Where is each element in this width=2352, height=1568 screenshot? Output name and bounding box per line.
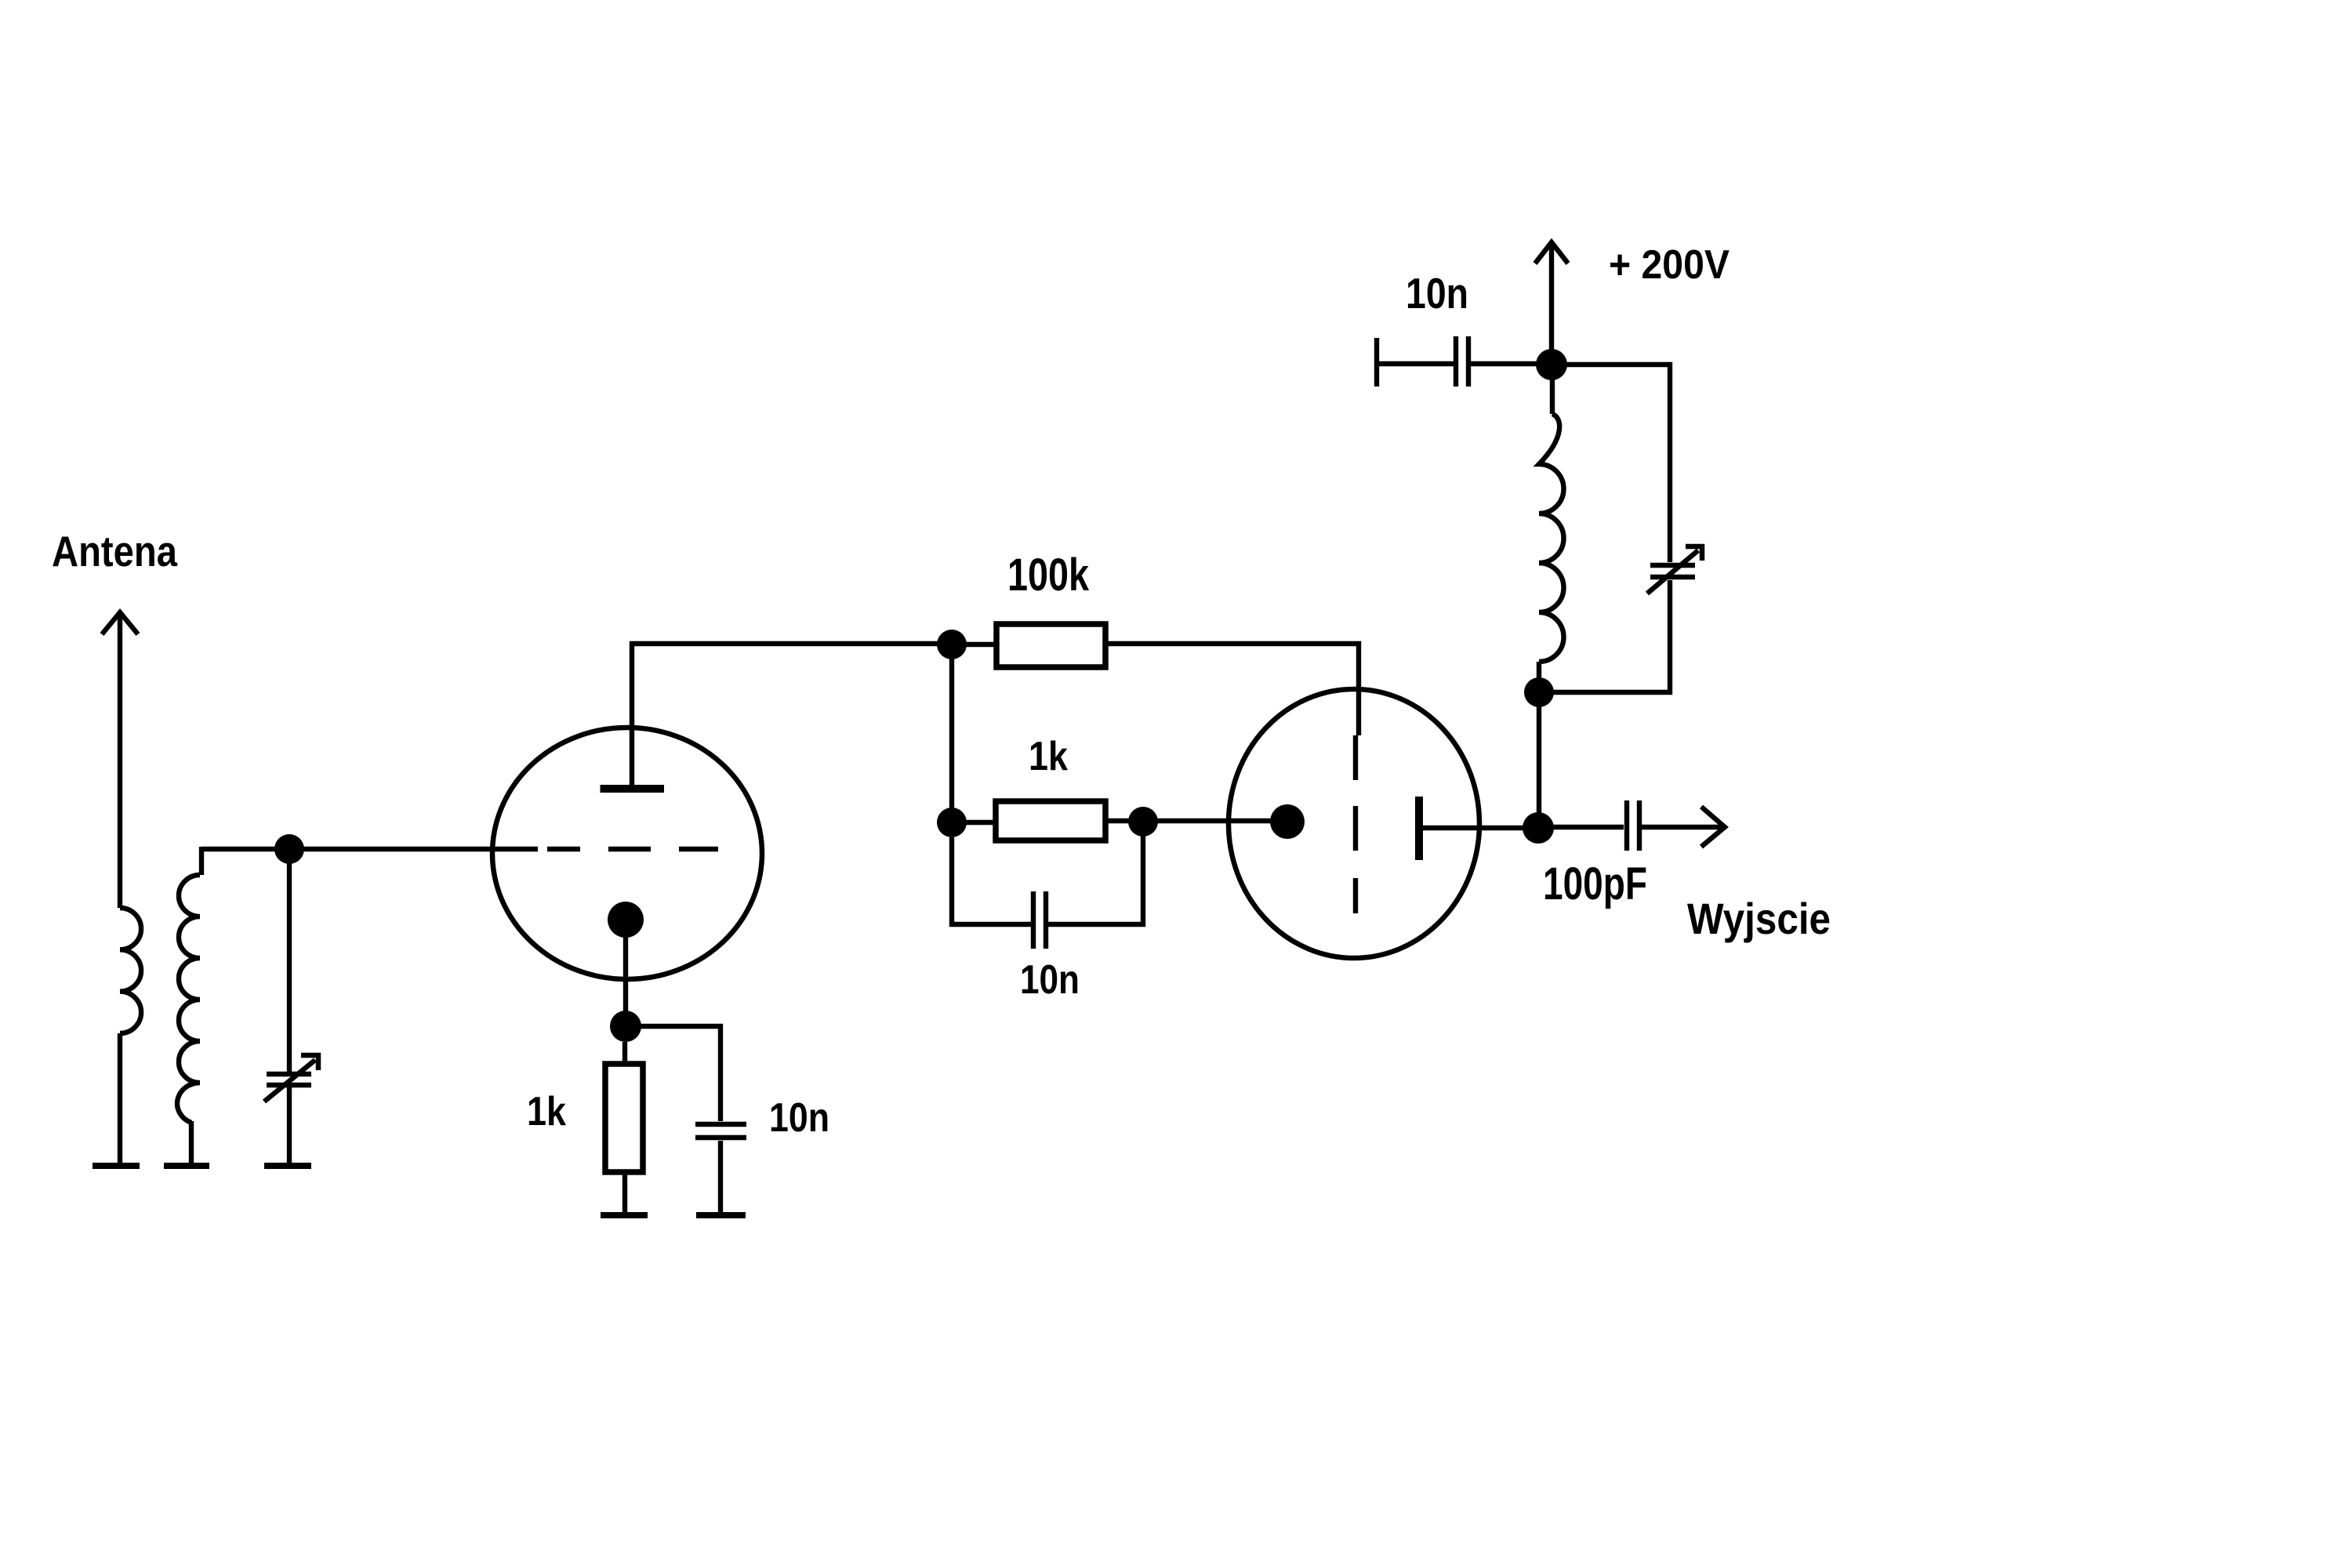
svg-text:10n: 10n	[769, 1095, 829, 1141]
svg-text:1k: 1k	[1029, 734, 1068, 779]
svg-text:100pF: 100pF	[1543, 858, 1647, 909]
svg-text:10n: 10n	[1020, 957, 1080, 1003]
svg-text:+ 200V: + 200V	[1609, 242, 1730, 288]
svg-text:100k: 100k	[1007, 550, 1090, 601]
svg-text:Wyjscie: Wyjscie	[1687, 894, 1831, 943]
svg-text:1k: 1k	[527, 1089, 566, 1134]
svg-text:Antena: Antena	[52, 527, 177, 575]
svg-text:10n: 10n	[1406, 269, 1468, 318]
